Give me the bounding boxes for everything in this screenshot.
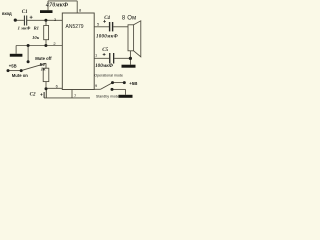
svg-text:R1: R1	[34, 26, 39, 31]
node C junction speaker/C5/ground	[129, 57, 132, 60]
svg-text:Operational mode: Operational mode	[94, 74, 123, 78]
resistor R2	[43, 68, 49, 81]
C5 polarity plus	[103, 53, 106, 56]
svg-text:C4: C4	[104, 16, 110, 21]
wire R2 top lead	[45, 63, 47, 68]
wire C5 to node C	[114, 57, 130, 59]
node A junction	[44, 19, 47, 22]
node +5V terminal left	[7, 69, 10, 72]
node R1 bottom junction	[44, 44, 47, 47]
wire IC pin 8 lead	[76, 1, 78, 13]
capacitor C5	[109, 53, 114, 64]
svg-text:C5: C5	[102, 47, 108, 53]
wire C4 to speaker	[113, 26, 128, 28]
capacitor C4	[109, 22, 113, 31]
wire node C to ground	[129, 58, 131, 64]
svg-text:1к: 1к	[41, 66, 46, 71]
svg-text:470мкФ: 470мкФ	[45, 2, 68, 8]
switch S2 standby contact node	[111, 88, 114, 91]
svg-text:вход: вход	[2, 11, 12, 16]
switch S1 mute-on contact node	[20, 69, 23, 72]
wire node B to IC pin 6	[46, 87, 62, 89]
svg-text:1 мкФ: 1 мкФ	[18, 26, 31, 31]
switch S2 arm	[101, 83, 112, 89]
svg-text:100мкФ: 100мкФ	[95, 63, 114, 69]
wire IC pin 7 lead	[71, 90, 73, 98]
svg-text:10к: 10к	[32, 35, 40, 40]
wire R1 top lead	[45, 20, 47, 25]
capacitor C7 plate bar	[40, 10, 53, 13]
op-amp IC AN5275 body	[62, 13, 94, 90]
svg-text:Mute off: Mute off	[35, 56, 52, 61]
switch S1 mute-off contact node	[27, 60, 30, 63]
wire standby contact	[112, 88, 126, 90]
C4 polarity plus	[103, 20, 106, 23]
capacitor C2 right plate wire	[45, 89, 47, 98]
wire C7 top	[48, 0, 77, 2]
wire operational contact to +5V	[113, 82, 125, 84]
wire node A to IC pin 3	[46, 19, 62, 21]
svg-text:+5В: +5В	[129, 81, 137, 86]
wire IC pin 1 to C5	[94, 57, 109, 59]
wire IC pin 9 stub	[94, 88, 100, 90]
wire pin 2 net	[16, 45, 62, 47]
wire input to C1	[15, 19, 24, 21]
wire speaker bottom lead	[129, 51, 131, 59]
ground symbol left	[10, 54, 23, 57]
wire R2 bottom lead	[45, 82, 47, 89]
wire ground lead left	[15, 46, 17, 54]
node input terminal	[14, 19, 17, 22]
wire C1 to node A	[27, 19, 46, 21]
svg-text:Standby mode: Standby mode	[96, 95, 119, 99]
switch S2 operational contact node	[111, 81, 114, 84]
C1 polarity plus	[30, 16, 33, 19]
svg-text:AN5279: AN5279	[66, 24, 84, 30]
node +5V terminal right	[123, 81, 126, 84]
svg-text:Mute on: Mute on	[12, 73, 28, 78]
switch S1 arm	[23, 63, 46, 70]
svg-text:C1: C1	[22, 10, 28, 15]
svg-text:8 Ом: 8 Ом	[122, 16, 137, 22]
capacitor C2 left plate	[44, 92, 45, 98]
wire +5V to mute-on contact	[8, 70, 21, 72]
ground symbol standby	[119, 95, 133, 98]
svg-text:1000мкФ: 1000мкФ	[96, 35, 118, 40]
capacitor C1	[24, 16, 27, 26]
resistor R1	[44, 26, 49, 40]
speaker LS1	[128, 21, 141, 57]
wire C7 vertical	[47, 1, 49, 10]
wire standby drop to ground	[125, 89, 127, 94]
C2 polarity plus	[40, 93, 42, 95]
ground rail bottom	[44, 97, 90, 99]
wire mute branch vertical	[27, 46, 29, 62]
node pin2 mute branch junction	[27, 44, 30, 47]
ground symbol under speaker	[122, 65, 136, 68]
node B junction R2/C2/pin6	[45, 87, 48, 90]
svg-text:C2: C2	[30, 91, 36, 97]
svg-text:+5В: +5В	[9, 63, 17, 68]
wire IC pin 5 to C4	[94, 26, 109, 28]
wire R1 bottom lead	[45, 40, 47, 46]
